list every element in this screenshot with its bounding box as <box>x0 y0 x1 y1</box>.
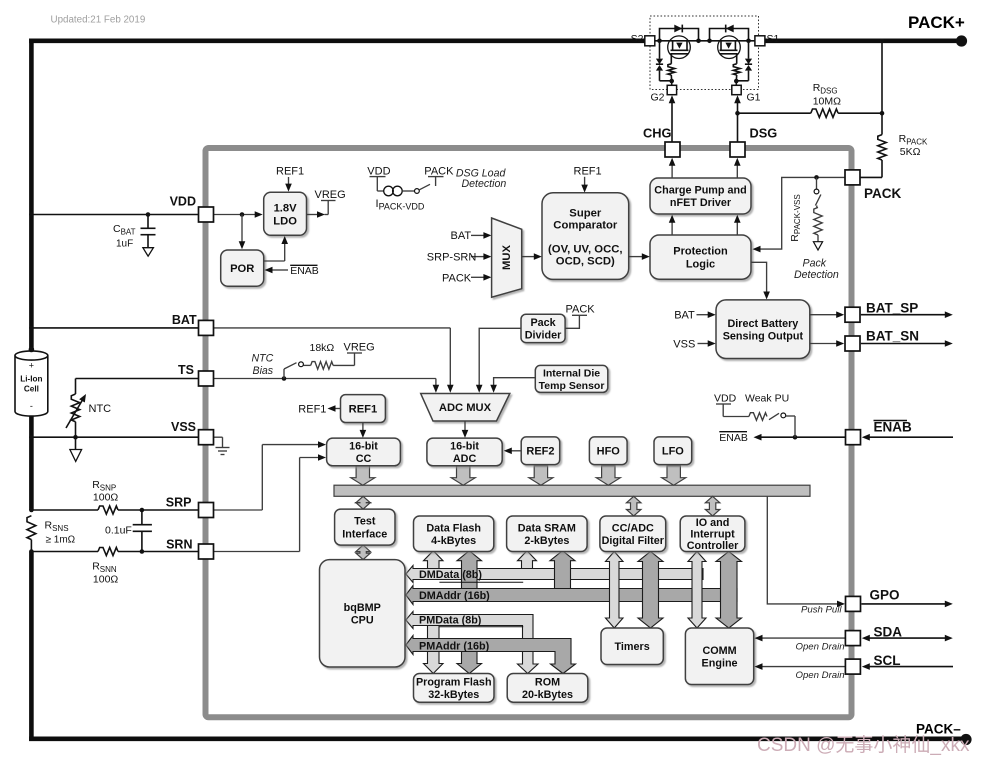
svg-text:GPO: GPO <box>870 588 900 603</box>
svg-text:Comparator: Comparator <box>553 220 618 232</box>
svg-text:CHG: CHG <box>643 126 671 141</box>
svg-text:Digital Filter: Digital Filter <box>602 535 665 547</box>
svg-text:Pack: Pack <box>803 258 827 270</box>
svg-text:REF2: REF2 <box>526 446 554 458</box>
svg-text:4-kBytes: 4-kBytes <box>431 535 476 547</box>
svg-text:Protection: Protection <box>673 246 728 258</box>
svg-text:32-kBytes: 32-kBytes <box>428 689 479 701</box>
svg-text:COMM: COMM <box>702 645 736 657</box>
svg-text:G2: G2 <box>651 92 665 104</box>
svg-text:TS: TS <box>178 363 194 377</box>
svg-text:BAT: BAT <box>172 313 197 327</box>
svg-text:Push Pull: Push Pull <box>801 605 842 616</box>
svg-text:5KΩ: 5KΩ <box>900 146 921 158</box>
svg-text:S1: S1 <box>767 33 780 45</box>
svg-text:OCD, SCD): OCD, SCD) <box>556 256 615 268</box>
svg-text:CC: CC <box>356 453 372 465</box>
svg-text:VDD: VDD <box>367 166 390 178</box>
svg-text:VSS: VSS <box>673 339 695 351</box>
svg-text:BAT_SN: BAT_SN <box>866 329 919 344</box>
svg-text:Sensing Output: Sensing Output <box>723 330 804 342</box>
svg-text:Pack: Pack <box>530 317 556 329</box>
svg-text:SDA: SDA <box>874 625 903 640</box>
svg-text:bqBMP: bqBMP <box>344 602 381 614</box>
svg-text:Charge Pump and: Charge Pump and <box>654 185 746 197</box>
svg-text:Test: Test <box>354 516 376 528</box>
svg-text:100Ω: 100Ω <box>93 492 119 504</box>
svg-text:Logic: Logic <box>686 259 715 271</box>
svg-text:NTC: NTC <box>89 403 112 415</box>
svg-text:REF1: REF1 <box>349 404 378 416</box>
svg-text:Cell: Cell <box>24 385 39 394</box>
svg-text:Open Drain: Open Drain <box>796 642 845 653</box>
svg-text:BAT: BAT <box>451 230 472 242</box>
svg-text:16-bit: 16-bit <box>349 441 378 453</box>
svg-text:Detection: Detection <box>462 178 507 190</box>
svg-text:CSDN @无事小神仙_xkx: CSDN @无事小神仙_xkx <box>757 734 970 756</box>
svg-text:ADC: ADC <box>453 453 477 465</box>
svg-text:Open Drain: Open Drain <box>796 670 845 681</box>
svg-text:SRP-SRN: SRP-SRN <box>427 252 477 264</box>
svg-text:Controller: Controller <box>687 540 739 552</box>
svg-text:DSG: DSG <box>750 126 778 141</box>
svg-text:REF1: REF1 <box>276 166 304 178</box>
svg-text:VDD: VDD <box>170 195 196 209</box>
svg-text:0.1uF: 0.1uF <box>105 525 132 537</box>
svg-text:BAT: BAT <box>674 310 695 322</box>
svg-text:ROM: ROM <box>535 676 560 688</box>
svg-text:Updated:21 Feb 2019: Updated:21 Feb 2019 <box>51 14 146 25</box>
svg-text:CPU: CPU <box>351 615 374 627</box>
svg-text:Direct Battery: Direct Battery <box>727 318 798 330</box>
svg-text:NTC: NTC <box>252 353 274 365</box>
svg-text:BAT_SP: BAT_SP <box>866 301 918 316</box>
svg-text:DMAddr (16b): DMAddr (16b) <box>419 590 490 602</box>
svg-text:100Ω: 100Ω <box>93 574 119 586</box>
svg-text:PACK: PACK <box>566 304 596 316</box>
svg-text:-: - <box>30 401 33 411</box>
svg-text:ADC MUX: ADC MUX <box>439 402 492 414</box>
svg-text:(OV, UV, OCC,: (OV, UV, OCC, <box>548 243 623 255</box>
svg-text:Engine: Engine <box>702 657 738 669</box>
svg-text:IO and: IO and <box>696 517 730 529</box>
svg-text:20-kBytes: 20-kBytes <box>522 689 573 701</box>
svg-text:HFO: HFO <box>597 446 621 458</box>
svg-text:VREG: VREG <box>344 342 375 354</box>
svg-text:VSS: VSS <box>171 420 196 434</box>
svg-text:18kΩ: 18kΩ <box>310 342 335 354</box>
svg-text:Data Flash: Data Flash <box>426 522 481 534</box>
svg-text:nFET Driver: nFET Driver <box>670 197 732 209</box>
svg-text:+: + <box>29 361 34 371</box>
svg-text:REF1: REF1 <box>574 166 602 178</box>
svg-text:Temp Sensor: Temp Sensor <box>539 380 605 392</box>
svg-text:2-kBytes: 2-kBytes <box>524 535 569 547</box>
svg-text:Bias: Bias <box>253 365 274 377</box>
svg-text:VREG: VREG <box>315 189 346 201</box>
svg-text:1uF: 1uF <box>116 239 133 250</box>
svg-text:PMAddr (16b): PMAddr (16b) <box>419 640 490 652</box>
svg-text:SCL: SCL <box>874 653 901 668</box>
svg-text:≥ 1mΩ: ≥ 1mΩ <box>46 535 76 546</box>
svg-text:PACK: PACK <box>442 273 472 285</box>
svg-text:SRN: SRN <box>166 538 192 552</box>
svg-text:S2: S2 <box>631 33 644 45</box>
svg-text:G1: G1 <box>747 92 761 104</box>
svg-text:Detection: Detection <box>794 269 839 281</box>
svg-text:VDD: VDD <box>714 393 737 405</box>
svg-text:POR: POR <box>230 263 254 275</box>
svg-text:Weak PU: Weak PU <box>745 393 789 405</box>
svg-text:ENAB: ENAB <box>874 420 913 435</box>
svg-text:SRP: SRP <box>166 496 192 510</box>
svg-text:1.8V: 1.8V <box>274 202 298 214</box>
svg-text:PACK: PACK <box>424 166 454 178</box>
svg-text:ENAB: ENAB <box>719 432 748 444</box>
svg-text:Divider: Divider <box>525 330 562 342</box>
svg-text:Interrupt: Interrupt <box>690 529 735 541</box>
svg-text:Internal Die: Internal Die <box>543 368 600 380</box>
svg-text:LFO: LFO <box>662 446 684 458</box>
svg-text:PACK: PACK <box>864 186 902 201</box>
svg-text:Interface: Interface <box>342 528 387 540</box>
svg-text:DMData (8b): DMData (8b) <box>419 569 482 581</box>
svg-text:Data SRAM: Data SRAM <box>518 522 576 534</box>
svg-text:PMData (8b): PMData (8b) <box>419 614 482 626</box>
svg-text:REF1: REF1 <box>298 404 326 416</box>
svg-text:Program Flash: Program Flash <box>416 676 492 688</box>
svg-text:Timers: Timers <box>615 641 650 653</box>
svg-text:16-bit: 16-bit <box>450 441 479 453</box>
svg-text:CC/ADC: CC/ADC <box>612 522 654 534</box>
svg-text:Li-Ion: Li-Ion <box>20 375 42 384</box>
svg-text:Super: Super <box>569 207 602 219</box>
svg-text:PACK+: PACK+ <box>908 13 965 32</box>
svg-text:LDO: LDO <box>273 215 297 227</box>
svg-text:ENAB: ENAB <box>290 265 319 277</box>
svg-text:MUX: MUX <box>501 245 513 270</box>
svg-text:10MΩ: 10MΩ <box>813 96 841 108</box>
